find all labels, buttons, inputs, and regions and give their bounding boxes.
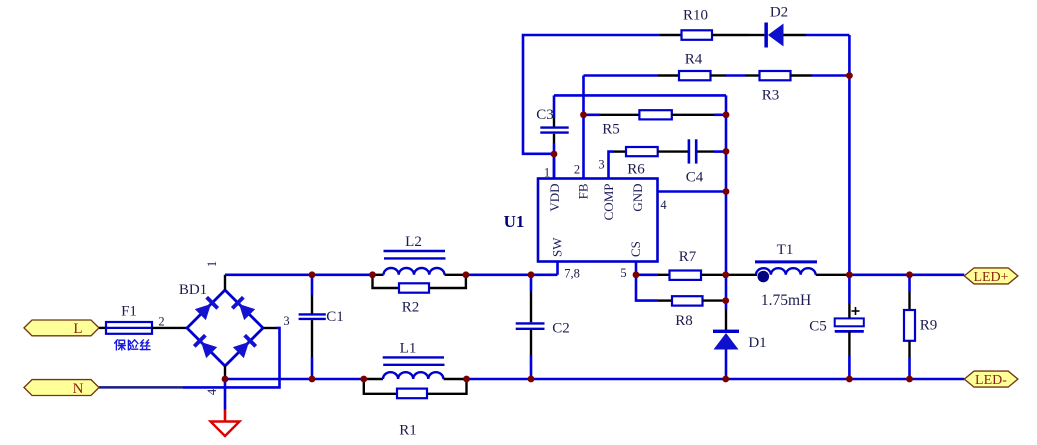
svg-text:1: 1 [205,261,219,267]
wire N to BD1 pin3 [183,328,280,388]
svg-text:BD1: BD1 [179,282,207,298]
resistor R1 [364,379,467,439]
junction L1 right [463,376,470,383]
resistor R8 [672,296,726,329]
svg-text:4: 4 [205,388,219,395]
junction C4 right [723,148,730,155]
svg-text:R6: R6 [627,162,645,178]
wire R7 junction to T1 [726,274,757,276]
wire FB to R4 [584,74,659,77]
junction C1 bottom [309,376,316,383]
fuse F1 [106,304,152,334]
resistor R6 [626,147,688,178]
wire rowB right [467,378,965,381]
svg-text:1.75mH: 1.75mH [761,292,811,309]
wire T1 to C5 node [816,274,850,276]
pin number 4 of U1 [660,198,667,212]
resistor R10 [660,8,749,40]
svg-text:R7: R7 [679,249,697,265]
wire COMP to R6 [609,152,627,179]
junction L2 right [463,271,470,278]
svg-text:D1: D1 [748,335,766,351]
inductor L1 [364,340,467,379]
pin number 1 of U1 [544,166,550,180]
svg-text:D2: D2 [770,5,788,21]
wire to LED+ port [910,273,965,276]
wire D2 to right vertical [806,35,849,275]
wire L to F1 [99,327,106,329]
wire CS to R8 [636,275,672,301]
svg-text:COMP: COMP [601,184,616,221]
pin number 4 [205,388,219,395]
BD1 pin 1 wire [224,275,226,290]
svg-text:R5: R5 [602,122,620,138]
pin number 1 [205,261,219,267]
svg-text:SW: SW [550,237,565,257]
pin number 3 of BD1 [283,314,289,328]
junction C1 top [309,271,316,278]
pin number 5 [620,266,626,280]
pin number 3 of U1 [598,158,604,172]
junction R8 right [722,297,729,304]
bridge rectifier BD1 [187,290,263,366]
label BD1 [179,282,207,298]
wire rowA bridge to L2 [225,273,373,276]
resistor R9 [904,275,937,379]
svg-text:C5: C5 [809,319,827,335]
svg-text:C1: C1 [326,309,344,325]
BD1 pin 3 wire [263,327,277,329]
junction D1 bottom [722,376,729,383]
svg-text:VDD: VDD [547,184,562,212]
resistor R4 [658,52,726,81]
junction CS pin5 [633,271,640,278]
svg-text:FB: FB [576,183,591,199]
svg-text:GND: GND [630,184,645,212]
label 1.75mH [761,292,811,309]
wire C5 to R9 node [849,273,909,276]
svg-text:5: 5 [620,266,626,280]
junction R5 left [580,111,587,118]
wire down to C5 [848,275,851,319]
wire to ground [224,379,227,410]
pin number 2 [158,314,164,328]
junction bridge bottom [222,376,229,383]
diode D1 [713,310,767,379]
wire R3 to vertical [812,74,849,77]
junction GND pin4 [723,188,730,195]
svg-text:C4: C4 [686,169,704,185]
wire R4 to R3 [726,74,745,77]
wire N dark segment [99,386,183,389]
wire GND pin4 [658,190,727,193]
wire rowB left [225,378,364,381]
junction VDD node [551,151,558,158]
junction C2 bottom [528,376,535,383]
svg-text:F1: F1 [121,304,137,320]
svg-text:L: L [73,321,82,337]
svg-text:T1: T1 [777,242,794,258]
junction R3 right [846,72,853,79]
svg-text:2: 2 [158,314,164,328]
capacitor C2 [516,275,570,379]
svg-text:R10: R10 [683,8,708,24]
resistor R5 [602,110,726,137]
svg-text:2: 2 [574,163,580,177]
resistor R2 [373,275,466,316]
junction C2 top [528,271,535,278]
svg-text:R1: R1 [399,423,417,439]
capacitor C3 [536,95,568,178]
junction C5 bottom [846,376,853,383]
label baoxiansi (fuse text) [115,340,150,350]
junction R5 right [723,111,730,118]
BD1 pin 4 wire [224,366,226,379]
junction L1 left [360,376,367,383]
diode D2 [749,5,806,48]
wire F1 to BD1 pin2 [152,327,187,329]
svg-text:R2: R2 [402,300,420,316]
svg-text:R8: R8 [675,313,693,329]
ground [211,410,240,437]
wire CS to R7 [636,273,670,276]
svg-text:3: 3 [598,158,604,172]
inductor L2 [373,234,466,275]
svg-text:C2: C2 [552,321,570,337]
pin number 7,8 [564,266,580,280]
junction R9 top [906,271,913,278]
svg-text:N: N [73,381,84,397]
wire VDD loop to R10 [523,35,660,154]
CS pin stub [635,262,638,275]
wire FB vertical [582,76,585,179]
resistor R7 [670,249,726,280]
svg-text:U1: U1 [504,212,525,231]
pin number 2 of U1 [574,163,580,177]
port N [24,380,99,397]
capacitor C4 [686,139,726,185]
op-amp U1 box [538,154,658,262]
inductor T1 [755,242,817,282]
svg-text:3: 3 [283,314,289,328]
svg-text:R9: R9 [920,318,938,334]
junction L2 left [369,271,376,278]
svg-text:LED+: LED+ [973,270,1008,285]
junction R9 bottom [906,376,913,383]
capacitor C5 [809,307,864,379]
port L [24,320,99,337]
svg-text:4: 4 [660,198,667,212]
svg-text:R4: R4 [685,52,703,68]
port LED- [964,371,1018,388]
wire to R5 [584,114,640,117]
junction R7 T1 [722,271,729,278]
junction T1 right [846,271,853,278]
capacitor C1 [299,275,344,379]
wire C3 top loop [554,94,726,97]
svg-text:L2: L2 [405,234,422,250]
port LED+ [964,268,1018,285]
resistor R3 [745,71,812,104]
svg-text:LED-: LED- [975,373,1007,388]
svg-text:L1: L1 [400,340,417,356]
wire right-mid vertical [725,95,728,310]
svg-text:R3: R3 [762,88,780,104]
svg-text:CS: CS [628,241,643,257]
wire rowA L2 to U1 SW [466,262,558,275]
svg-text:C3: C3 [536,107,554,123]
svg-text:1: 1 [544,166,550,180]
label U1 [504,212,525,231]
svg-text:7,8: 7,8 [564,266,580,280]
